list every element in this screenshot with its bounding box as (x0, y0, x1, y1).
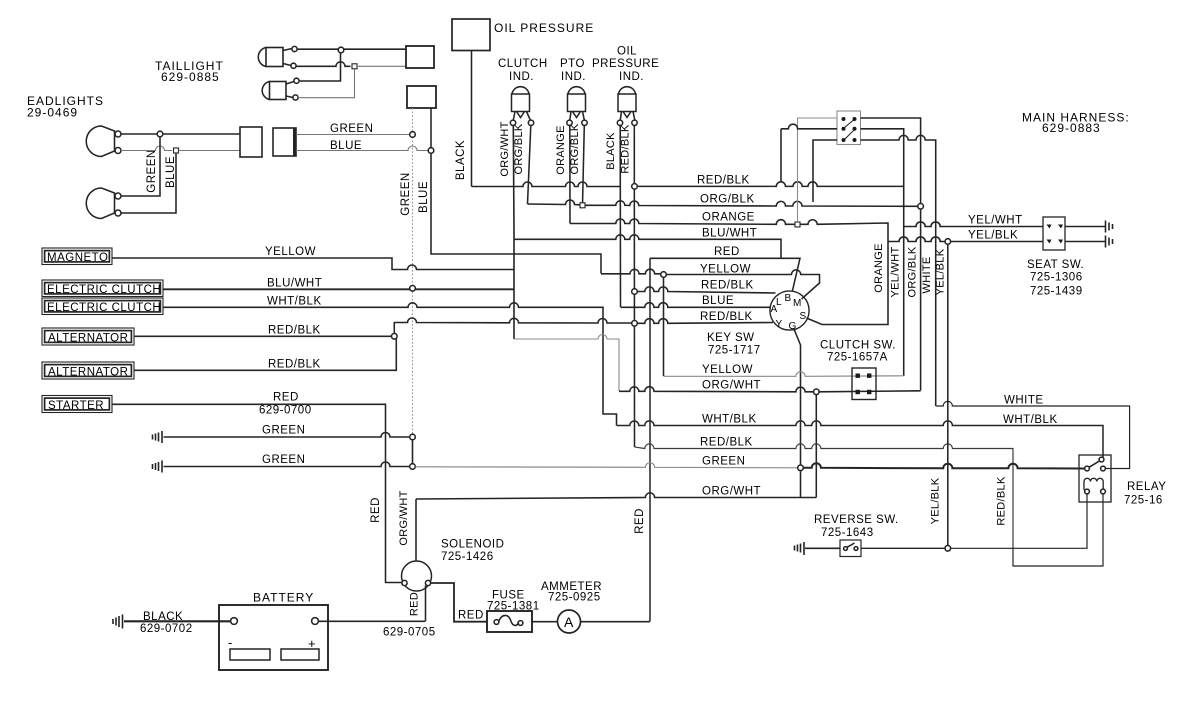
taillight bulb 2 (262, 78, 299, 100)
svg-text:WHT/BLK: WHT/BLK (267, 296, 322, 308)
taillight bulb 1 (258, 46, 297, 68)
svg-text:629-0700: 629-0700 (259, 405, 312, 417)
harness connector block (837, 111, 861, 145)
wire BLACK ground to battery (124, 620, 231, 622)
wire BLU/WHT electric clutch 1 (163, 288, 514, 290)
wire YEL/BLK junction to seat switch (951, 241, 1043, 243)
ground symbol green wire 1 (153, 431, 163, 443)
solenoid circle (402, 561, 432, 591)
svg-text:YELLOW: YELLOW (700, 264, 751, 276)
junction on BLU/WHT at green bus (410, 286, 416, 292)
svg-text:ELECTRIC CLUTCH: ELECTRIC CLUTCH (47, 302, 161, 314)
svg-text:RED: RED (273, 392, 299, 404)
svg-text:RED: RED (409, 592, 421, 616)
wire ORANGE continues right then down at x888 (800, 220, 888, 325)
svg-text:RED/BLK: RED/BLK (268, 359, 321, 371)
junction on taillight top wire (338, 47, 344, 53)
wire ammeter to RED bus (581, 621, 651, 623)
ground symbol reverse switch (795, 542, 805, 555)
svg-text:BLU/WHT: BLU/WHT (702, 228, 757, 240)
wire fuse to ammeter (532, 621, 558, 623)
svg-text:BLUE: BLUE (418, 181, 430, 213)
junction green2 on bus (410, 464, 416, 470)
svg-text:RED/BLK: RED/BLK (700, 311, 753, 323)
svg-text:RED: RED (458, 610, 484, 622)
wire ground to reverse switch (805, 547, 840, 549)
wire YEL/WHT y226.5 to seat switch (904, 222, 1043, 227)
seat switch pins (1047, 225, 1064, 244)
wire RED/BLK y291.5 to key switch L (637, 287, 775, 293)
wire RED/BLK alternator 2 joins alternator 1 (134, 339, 396, 370)
seat switch box (1043, 217, 1065, 250)
svg-text:A: A (564, 614, 574, 630)
wire x1013 down to y566 across to relay coil right pin (1013, 494, 1103, 566)
svg-text:ORG/BLK: ORG/BLK (700, 194, 755, 206)
svg-text:YELLOW: YELLOW (265, 246, 316, 258)
svg-text:Y: Y (776, 319, 783, 330)
wire seat switch top to ground (1065, 226, 1105, 228)
wire ORG/BLK y205 from clutch ind corner to right (528, 200, 580, 205)
svg-text:YEL/BLK: YEL/BLK (930, 477, 942, 524)
YELLOW bus x663.5 down (663, 277, 665, 376)
wire seat switch bottom to ground (1065, 241, 1105, 243)
headlight connector box B (273, 128, 296, 156)
solenoid coil wire ORG/WHT up (415, 499, 417, 561)
wire RED starter down to solenoid (112, 404, 402, 582)
wire BLUE from connectorB to blue bus with hump over green bus (296, 146, 428, 150)
starter box (42, 396, 112, 413)
wire GREEN 2 to green bus (164, 462, 410, 467)
wire BLUE y307 from x620.5 to key switch A (621, 303, 772, 308)
connector block switch diagonals (844, 120, 854, 141)
wire RED/BLK y186.3 to right column (637, 182, 903, 187)
svg-text:A: A (771, 304, 778, 315)
wire taillight bulb1 top to connector (297, 48, 406, 50)
riser x816 from clutch switch to ORG/WHT y497 (815, 395, 817, 498)
wire headlight2 top up to junction (121, 137, 160, 196)
reverse switch box (840, 540, 861, 557)
svg-text:BLACK: BLACK (455, 140, 467, 180)
svg-text:BLACK: BLACK (605, 132, 617, 170)
svg-text:BLUE: BLUE (165, 156, 177, 188)
wire ORG/WHT y391 from x619 to clutch switch (619, 387, 813, 392)
svg-text:629-0705: 629-0705 (383, 627, 436, 639)
junction J1 yellow (661, 272, 667, 278)
svg-text:29-0469: 29-0469 (27, 106, 78, 120)
svg-text:725-1643: 725-1643 (821, 527, 874, 539)
square junction ORANGE at x797.5 (795, 222, 800, 227)
svg-text:WHITE: WHITE (921, 257, 933, 294)
ammeter circle (558, 610, 581, 633)
square junction ORG/BLK pto (580, 203, 585, 208)
wire WHT/BLK y425.5 across to relay (617, 421, 1104, 458)
svg-text:REVERSE SW.: REVERSE SW. (814, 514, 899, 526)
svg-text:IND.: IND. (619, 71, 644, 83)
svg-text:GREEN: GREEN (146, 149, 158, 192)
wire solenoid right terminal down to battery positive (425, 586, 427, 622)
svg-text:GREEN: GREEN (702, 456, 745, 468)
junction RED/BLK bus x634.5 y323 (632, 321, 638, 327)
svg-text:PRESSURE: PRESSURE (592, 58, 659, 70)
svg-text:PTO: PTO (560, 58, 585, 70)
svg-text:S: S (800, 311, 807, 322)
svg-text:ORG/WHT: ORG/WHT (702, 380, 761, 392)
svg-text:B: B (785, 293, 792, 304)
svg-text:SEAT SW.: SEAT SW. (1027, 259, 1084, 271)
svg-text:RED/BLK: RED/BLK (701, 280, 754, 292)
wire reverse switch to junction and relay coil (861, 547, 945, 549)
alternator box 1 (42, 328, 134, 345)
wire row3 left of block down to ORG/BLK y206 (813, 140, 837, 202)
junction blue wire on blue bus (428, 148, 434, 154)
svg-text:STARTER: STARTER (48, 400, 104, 412)
wire ORANGE y223.5 from pto ind corner to right (570, 219, 795, 224)
wire BLU/WHT y239 from x514 bus to x781 (514, 235, 781, 258)
battery box (219, 605, 328, 670)
svg-text:GREEN: GREEN (400, 172, 412, 215)
electric clutch box 2 (42, 298, 163, 315)
BLUE bus vertical from connector box2 (430, 108, 432, 150)
relay blade (1089, 461, 1100, 468)
svg-text:725-1306: 725-1306 (1030, 272, 1083, 284)
BLACK bus from oil ind down (619, 126, 621, 308)
wire RED/BLK combined up and right (394, 318, 631, 334)
clutch indicator bulb (510, 87, 533, 126)
wire ORG/WHT y339 jog from x514 to x619 (514, 335, 619, 392)
wire key G down x801 (794, 329, 801, 498)
magneto box (42, 248, 112, 265)
key switch circle (770, 291, 809, 330)
svg-text:BLU/WHT: BLU/WHT (267, 278, 322, 290)
svg-text:ORG/WHT: ORG/WHT (499, 121, 511, 176)
svg-text:ORG/WHT: ORG/WHT (702, 486, 761, 498)
taillight connector box 2 (407, 86, 436, 108)
clutch switch pins (856, 374, 872, 395)
oil pressure indicator bulb (617, 87, 637, 126)
svg-text:RELAY: RELAY (1127, 481, 1166, 493)
svg-text:ALTERNATOR: ALTERNATOR (48, 367, 128, 379)
relay coil (1084, 478, 1103, 490)
svg-text:RED/BLK: RED/BLK (620, 124, 632, 174)
svg-text:CLUTCH SW.: CLUTCH SW. (820, 340, 896, 352)
wire row2 left of block down to RED/BLK y186 (781, 124, 837, 182)
oil pressure sender box (452, 19, 490, 51)
link between green junctions (412, 440, 414, 464)
battery terminals (231, 618, 238, 625)
ORG/BLK bus from pto ind down (583, 126, 585, 206)
ORG/WHT bus from clutch ind down to y339 (512, 126, 515, 340)
svg-text:ORANGE: ORANGE (555, 125, 567, 174)
junction GREEN at x801 (798, 465, 804, 471)
wire RED y258 to key switch B (650, 258, 800, 290)
svg-text:ELECTRIC CLUTCH: ELECTRIC CLUTCH (47, 284, 161, 296)
wire ORG/WHT junction through clutch switch pins to x920.6 (819, 391, 921, 392)
svg-text:BATTERY: BATTERY (253, 591, 314, 605)
svg-text:ORG/WHT: ORG/WHT (398, 490, 410, 545)
ground symbol seat switch top (1106, 221, 1113, 233)
svg-text:RED/BLK: RED/BLK (996, 476, 1008, 526)
pto indicator bulb (567, 87, 587, 126)
battery cell slots (230, 649, 270, 660)
svg-text:725-16: 725-16 (1124, 495, 1163, 507)
svg-text:YEL/WHT: YEL/WHT (890, 247, 902, 298)
svg-text:ORANGE: ORANGE (873, 243, 885, 292)
svg-text:OIL PRESSURE: OIL PRESSURE (494, 21, 594, 35)
relay coil pins (1085, 489, 1090, 494)
wire YELLOW J1 to key switch M (666, 270, 819, 299)
junction alternator wires (392, 334, 398, 340)
headlight 2 cone (86, 188, 121, 219)
svg-text:GREEN: GREEN (262, 454, 305, 466)
svg-text:RED/BLK: RED/BLK (697, 175, 750, 187)
junction green1 on bus (410, 434, 416, 440)
wire solenoid right terminal to fuse (431, 583, 487, 622)
svg-text:IND.: IND. (561, 71, 586, 83)
wire GREEN continues to relay left pin (803, 463, 1084, 468)
svg-text:-: - (228, 635, 232, 650)
wire junction to relay coil left pin (951, 494, 1087, 548)
svg-text:629-0702: 629-0702 (140, 623, 193, 635)
reverse switch contacts (844, 547, 848, 551)
svg-text:RED: RED (370, 497, 382, 523)
RED/BLK bus from oil ind down (633, 126, 635, 448)
wire ORG/WHT y497.5 solenoid to clutch riser (416, 493, 816, 499)
svg-text:M: M (793, 298, 801, 309)
junction RED/BLK key L on x634.5 (632, 289, 638, 295)
wire headlight1 top to connectorA (121, 133, 240, 135)
clutch switch box (852, 368, 876, 400)
ground symbol seat switch bottom (1106, 236, 1113, 248)
wire taillight bulb2 top up to junction (299, 53, 341, 82)
key switch letters (771, 293, 807, 332)
wire headlight1 bottom with hump (121, 146, 172, 150)
svg-text:YELLOW: YELLOW (702, 364, 753, 376)
svg-text:725-1426: 725-1426 (441, 551, 494, 563)
headlight 1 cone (86, 126, 121, 157)
wire taillight bulb2 bottom up to square junction (298, 69, 355, 98)
relay box (1079, 455, 1111, 502)
square junction taillight bottom (352, 64, 357, 69)
svg-text:RED/BLK: RED/BLK (700, 437, 753, 449)
wire row2 right of block to x903.7 (861, 129, 904, 376)
wire taillight bulb1 bottom with hump to connector (296, 62, 351, 66)
svg-text:WHITE: WHITE (1004, 395, 1044, 407)
wire square junction to connector box1 (357, 65, 406, 67)
svg-text:YEL/WHT: YEL/WHT (968, 215, 1023, 227)
wire WHT/BLK electric clutch 2 (163, 303, 617, 426)
wire row3 right of block to x935.7 (861, 135, 936, 406)
junction ORG/BLK on right column x920.6 (918, 204, 924, 210)
svg-text:KEY SW: KEY SW (707, 332, 755, 344)
wire BLACK from sender down (471, 51, 473, 187)
wire YELLOW y376 to clutch switch and x903.7 (664, 372, 904, 377)
svg-text:725-1657A: 725-1657A (827, 352, 888, 364)
junction reverse wire x947.8 (945, 546, 951, 552)
svg-text:ORG/BLK: ORG/BLK (513, 123, 525, 174)
YEL/BLK column x947.8 down to reverse switch (947, 244, 949, 545)
svg-text:629-0883: 629-0883 (1042, 121, 1101, 135)
junction headlight top wire (157, 131, 163, 137)
svg-text:725-1439: 725-1439 (1030, 286, 1083, 298)
wire ORG/BLK y205.5 continues to right column (585, 201, 918, 207)
wire row1 left of block to orange square (798, 118, 838, 222)
RED bus vertical x650 (649, 258, 651, 621)
svg-text:725-0925: 725-0925 (548, 592, 601, 604)
svg-text:GREEN: GREEN (330, 123, 373, 135)
svg-text:629-0885: 629-0885 (161, 70, 220, 84)
wire headlight2 bottom up to square junction (121, 153, 176, 213)
svg-text:BLUE: BLUE (702, 295, 734, 307)
wire WHITE y406 from x935.7 to relay (936, 401, 1130, 468)
taillight connector box 1 (406, 46, 434, 68)
wire row1 right of block to x920.6 (861, 118, 921, 204)
wire YELLOW y274 blue-in to J1 (601, 269, 661, 274)
svg-text:ORANGE: ORANGE (702, 212, 755, 224)
svg-text:WHT/BLK: WHT/BLK (1003, 414, 1058, 426)
svg-text:IND.: IND. (509, 71, 534, 83)
svg-text:ORG/BLK: ORG/BLK (907, 246, 919, 297)
svg-text:ALTERNATOR: ALTERNATOR (48, 333, 128, 345)
wire YEL/BLK y241.5 to seat switch (888, 237, 945, 242)
wire battery positive to solenoid riser (318, 620, 425, 622)
svg-text:RED: RED (714, 246, 740, 258)
relay switch pins (1085, 466, 1090, 471)
wire GREEN y467.5 from green bus to relay (415, 463, 797, 468)
svg-text:OIL: OIL (617, 46, 637, 58)
svg-text:725-1717: 725-1717 (708, 345, 761, 357)
wire BLACK horizontal y186.5 from sender to oil ind (472, 182, 621, 186)
ORG/BLK column continues below junction (920, 209, 922, 390)
wire RED/BLK y448.5 from x634.5 corner to x1013 (635, 444, 1014, 548)
svg-text:WHT/BLK: WHT/BLK (702, 414, 757, 426)
electric clutch box 1 (42, 280, 163, 297)
wire RED/BLK alternator 1 (134, 335, 391, 337)
connector block pins (842, 117, 857, 142)
solenoid terminals (402, 580, 407, 585)
headlight connector box A (240, 127, 262, 157)
fuse element (494, 620, 499, 625)
junction RED/BLK oil ind on y186.3 (632, 184, 638, 190)
square junction headlight bottom (174, 148, 179, 153)
junction green wire on green bus (410, 132, 416, 138)
junction ORG/WHT clutch switch (814, 389, 820, 395)
ground symbol battery black wire (113, 615, 123, 629)
GREEN bus vertical from connector box2 (412, 108, 414, 437)
junction YEL/BLK x947.8 (945, 239, 951, 245)
wire square junction to connectorA (179, 150, 241, 152)
ground symbol green wire 2 (153, 461, 163, 473)
ORG/BLK bus from clutch ind down (528, 126, 531, 205)
svg-text:RED: RED (634, 508, 646, 534)
svg-text:YEL/BLK: YEL/BLK (968, 230, 1018, 242)
wire GREEN 1 to green bus (164, 433, 410, 438)
svg-text:MAGNETO: MAGNETO (47, 252, 108, 264)
ORANGE bus from pto ind down (569, 126, 571, 224)
svg-text:GREEN: GREEN (262, 425, 305, 437)
svg-text:RED/BLK: RED/BLK (268, 325, 321, 337)
wire YELLOW magneto (112, 258, 514, 270)
BLUE bus continues down and turns right (431, 153, 601, 273)
svg-text:SOLENOID: SOLENOID (441, 539, 504, 551)
svg-text:CLUTCH: CLUTCH (498, 58, 548, 70)
fuse box (487, 611, 532, 632)
alternator box 2 (42, 362, 134, 379)
wire GREEN from connectorB to green bus (296, 134, 410, 136)
svg-text:ORG/BLK: ORG/BLK (569, 123, 581, 174)
wire RED/BLK to key switch Y (637, 319, 773, 324)
